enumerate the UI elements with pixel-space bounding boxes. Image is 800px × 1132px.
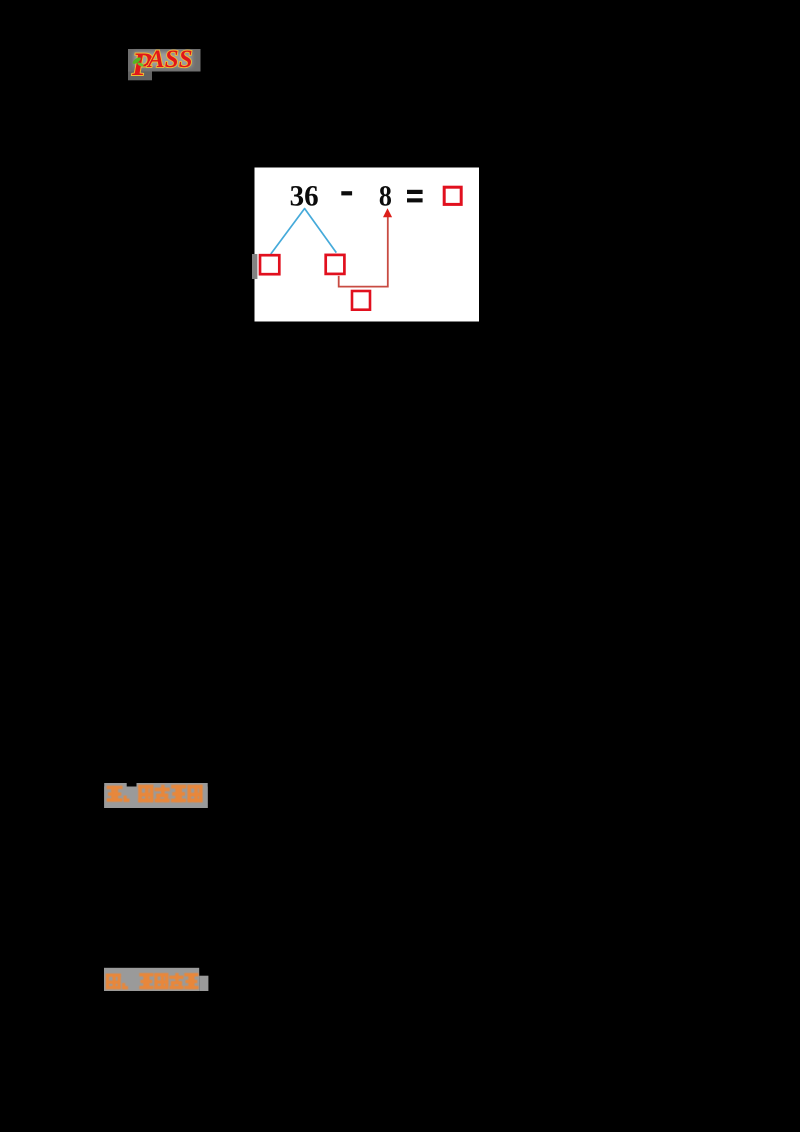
svg-text:ASS: ASS	[146, 46, 193, 73]
header 2 grey highlight	[104, 968, 199, 991]
header 1 orange text (CJK-style)	[107, 785, 203, 803]
red box 3 (bottom)	[352, 291, 370, 310]
svg-text:36: 36	[290, 180, 319, 213]
svg-text:8: 8	[379, 180, 392, 213]
grey scan sliver at left edge	[252, 254, 257, 279]
blue decomposition lines	[271, 209, 337, 255]
PASS logo text	[131, 46, 193, 83]
red box 1 (left)	[260, 255, 279, 274]
red connector line	[339, 216, 388, 286]
header 1 grey highlight	[104, 783, 127, 808]
minus sign	[341, 191, 352, 195]
logo green leaf	[132, 56, 142, 65]
white figure box	[255, 168, 480, 322]
header 2 orange text (CJK-style)	[106, 973, 199, 989]
equals sign	[407, 190, 423, 194]
answer red box	[444, 187, 461, 204]
red arrowhead	[383, 208, 392, 217]
red box 2 (middle)	[326, 255, 345, 274]
